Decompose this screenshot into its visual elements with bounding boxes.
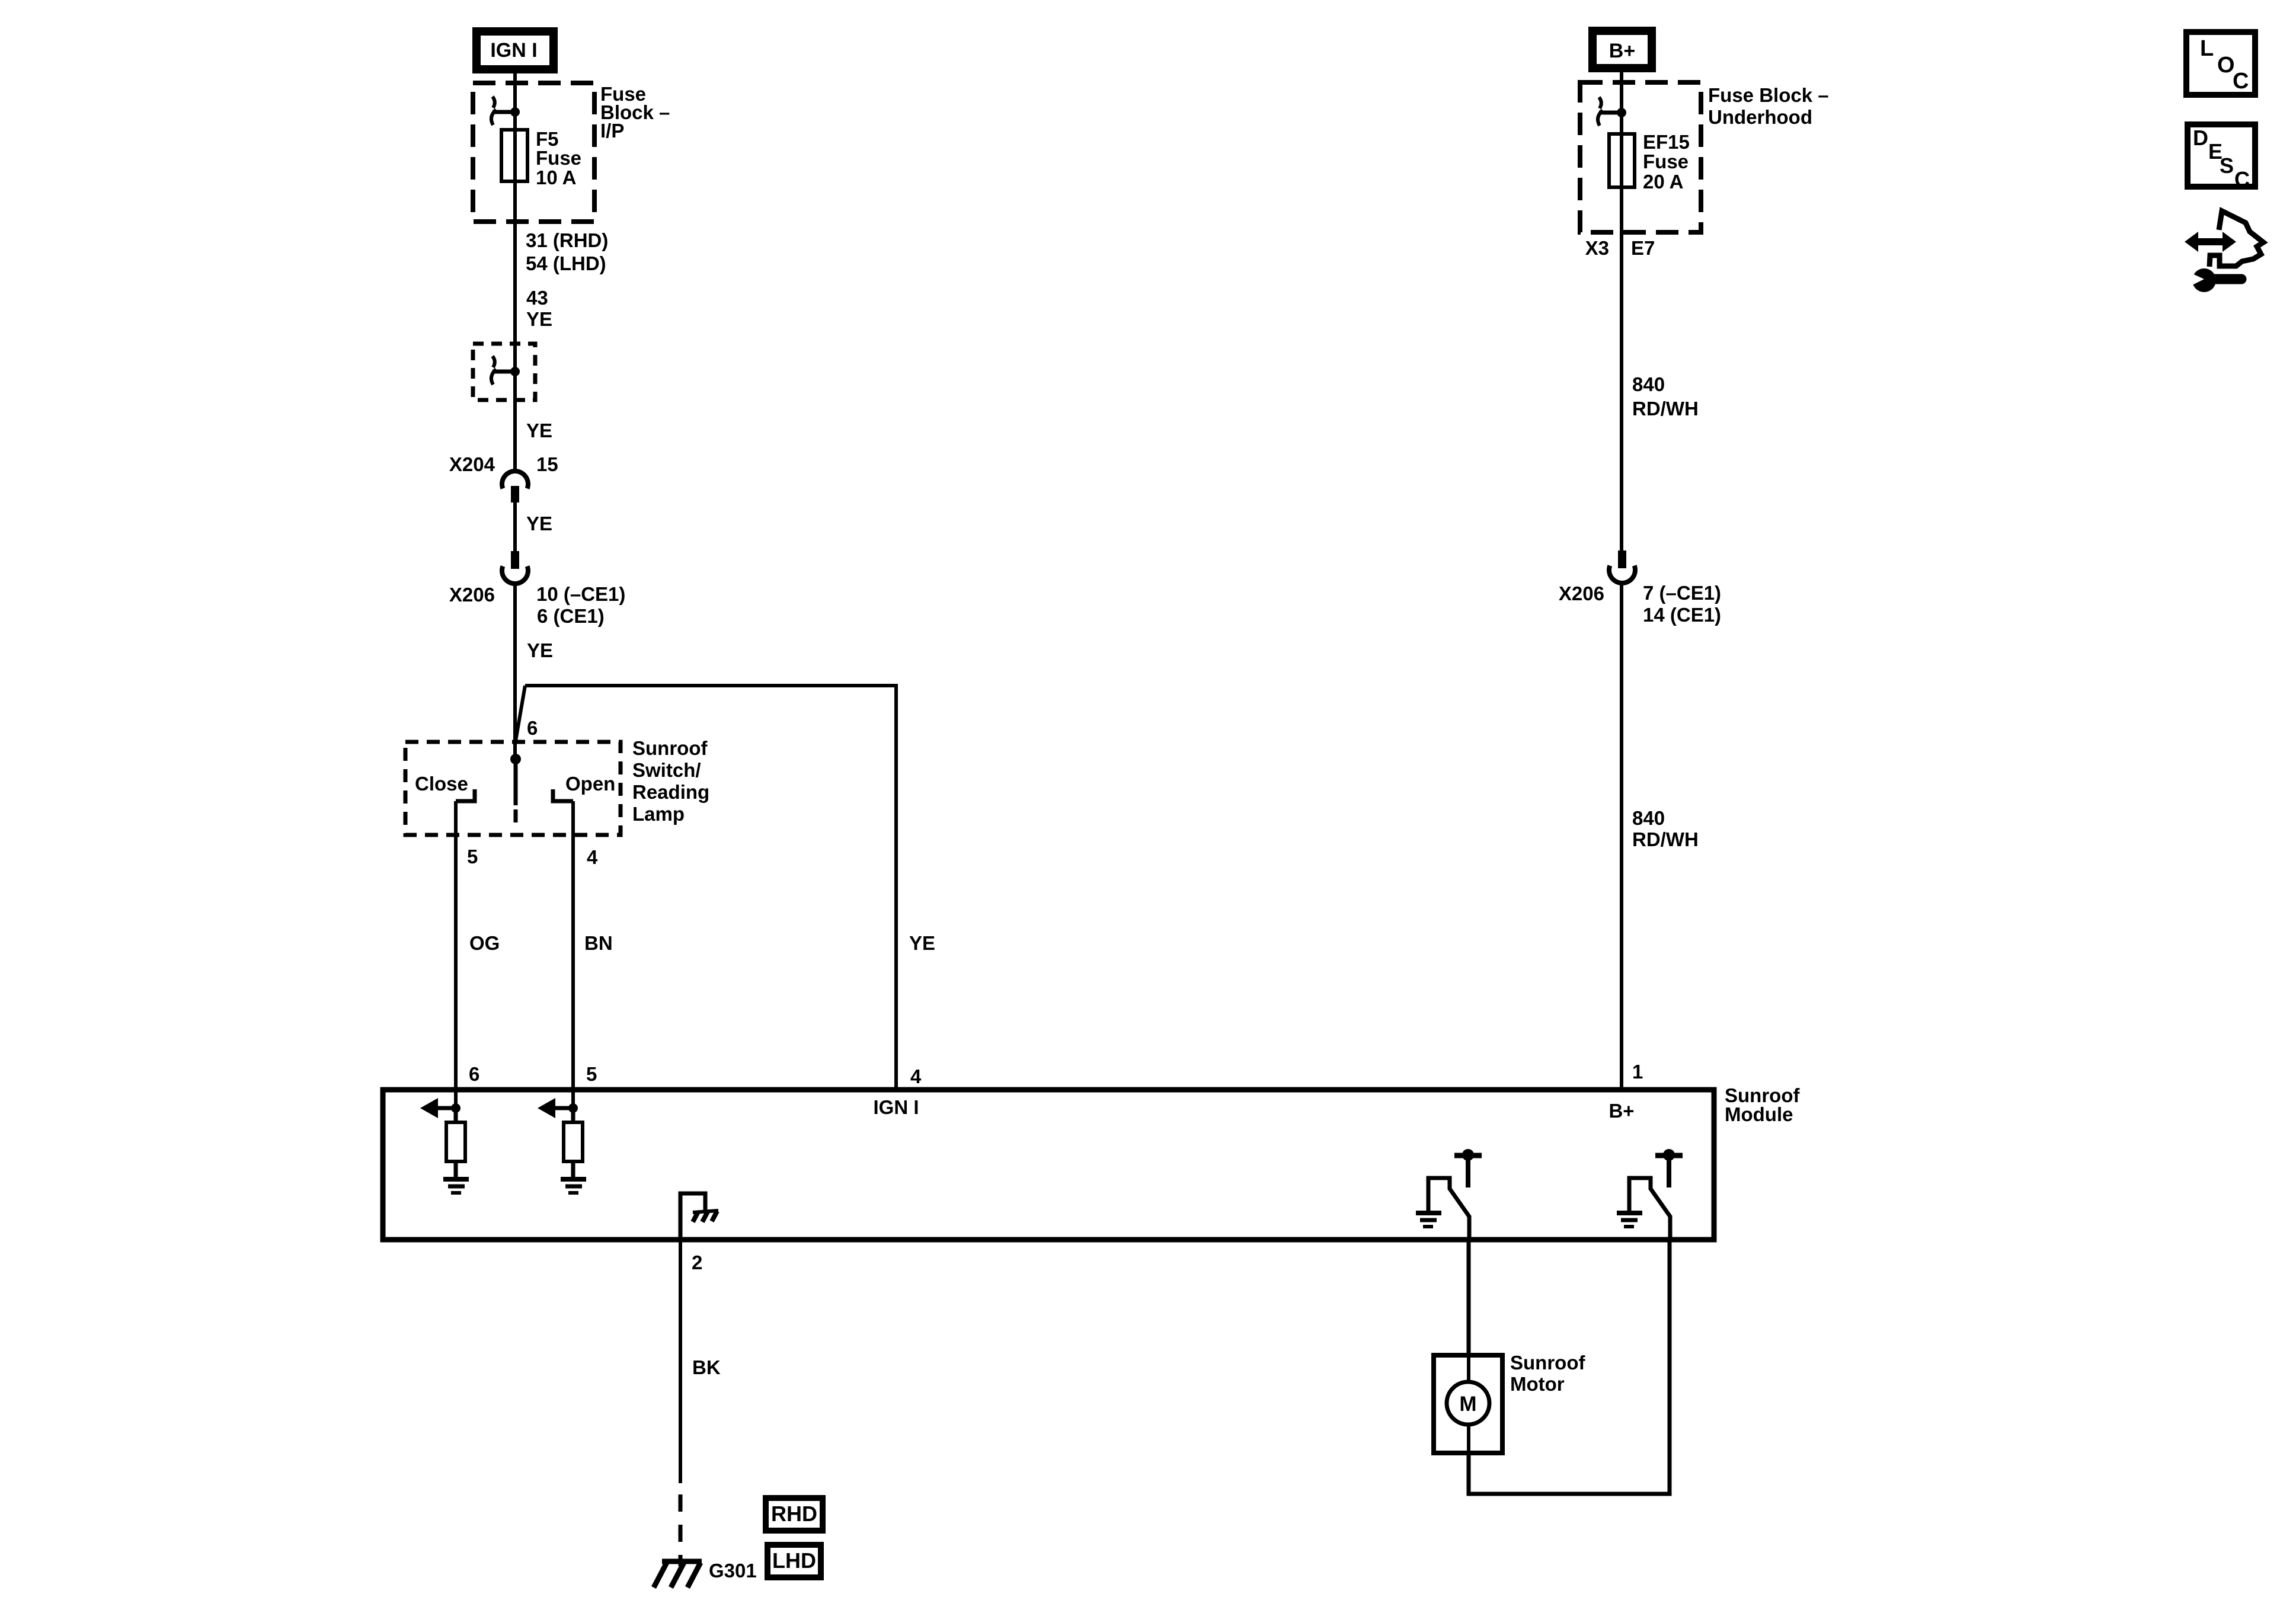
option box RHD [766,1498,823,1531]
svg-text:X206: X206 [449,584,495,606]
svg-text:10 A: 10 A [536,167,576,188]
wire RD/WH 840 (fuse to X206 right) [1620,187,1623,550]
wire OG close to module pin 6 [454,801,458,1108]
svg-text:G301: G301 [709,1560,757,1582]
wire YE horizontal branch to module pin 4 [525,686,896,1090]
wire motor return loop to open contact [1469,1240,1670,1494]
sunroof module box [383,1090,1714,1240]
wire through motor box [1467,1355,1470,1453]
svg-text:5: 5 [586,1063,597,1085]
label Fuse Block - Underhood [1708,84,1829,128]
switch close contact [456,789,475,801]
svg-text:X204: X204 [449,453,495,475]
svg-text:X3: X3 [1585,237,1609,259]
label Sunroof Module [1725,1084,1800,1125]
label 7 (-CE1) 14 (CE1) [1643,582,1721,626]
svg-text:43: 43 [526,287,548,309]
wire BK dashed section [679,1494,683,1566]
svg-text:C: C [2234,167,2250,191]
fuse block I/P dashed box [473,83,594,222]
fuse EF15 20 A [1609,134,1635,187]
svg-text:YE: YE [909,932,935,954]
connector X204 pin 15 (female half) [502,471,528,488]
label 10 (-CE1) 6 (CE1) [536,583,625,627]
svg-text:5: 5 [467,846,478,868]
svg-text:840: 840 [1632,373,1665,395]
svg-text:M: M [1459,1393,1476,1416]
svg-text:Open: Open [565,773,615,795]
wire IGN I feed (x=869, box to fuse block) [513,73,517,130]
svg-text:Sunroof: Sunroof [632,737,708,759]
label EF15 Fuse 20 A [1643,131,1690,193]
junction dot in fuse block I/P [510,107,520,117]
wire branch diagonal to IGN I feed [515,686,525,744]
ground (internal, close contact) [1416,1213,1441,1227]
label Fuse Block - I/P [600,83,670,142]
svg-text:Module: Module [1725,1103,1793,1125]
connector X206 right (female half) [1609,566,1635,583]
svg-text:YE: YE [526,420,552,441]
internal ground hook pin 2 [680,1193,705,1240]
sunroof switch dashed box [405,742,621,835]
wire RD/WH 840 (X206 to module pin 1) [1620,582,1623,1090]
junction dot pin 6 input [451,1103,461,1113]
connector X204 pin 15 (male terminal) [511,486,519,502]
svg-text:BN: BN [584,932,613,954]
svg-text:E7: E7 [1631,237,1655,259]
svg-text:Close: Close [415,773,468,795]
chassis ground G301 [654,1561,702,1587]
svg-text:X206: X206 [1559,582,1604,604]
label Sunroof Motor [1510,1352,1585,1395]
wire BK module pin 2 to G301 [679,1240,682,1483]
legend box LOC [2186,32,2255,95]
svg-text:Switch/: Switch/ [632,759,701,781]
svg-text:YE: YE [526,308,552,330]
off-page arrow pin 5 [538,1098,573,1118]
svg-text:Fuse: Fuse [536,147,581,169]
svg-text:31 (RHD): 31 (RHD) [526,229,608,251]
svg-text:2: 2 [692,1251,702,1273]
svg-text:7 (–CE1): 7 (–CE1) [1643,582,1721,604]
power symbol B+ [1593,31,1652,68]
svg-text:Underhood: Underhood [1708,106,1812,128]
svg-text:Lamp: Lamp [632,803,685,825]
relay contact close side: B+ stub [1454,1149,1482,1188]
svg-text:6: 6 [527,717,538,739]
svg-text:I/P: I/P [600,120,624,142]
svg-text:OG: OG [469,932,500,954]
wire close contact to sunroof motor [1467,1240,1471,1355]
junction dot switch common [510,754,521,764]
wire BN open to module pin 5 [571,801,575,1108]
svg-text:RD/WH: RD/WH [1632,398,1699,420]
service icon: panel outline [2209,211,2263,267]
svg-text:20 A: 20 A [1643,171,1683,193]
wire YE (X204 to X206) [513,502,517,551]
svg-text:RD/WH: RD/WH [1632,828,1699,850]
service icon: wrench [2190,268,2241,292]
svg-text:D: D [2193,126,2208,150]
relay contact close side: grounded contact and blade [1428,1178,1469,1240]
svg-text:C: C [2233,69,2249,94]
svg-text:10 (–CE1): 10 (–CE1) [536,583,625,605]
svg-text:EF15: EF15 [1643,131,1690,153]
connector X206 right (male terminal) [1618,550,1626,568]
svg-text:S: S [2220,153,2234,178]
relay contact open side: B+ stub [1655,1149,1683,1188]
bus hook symbol (inline connector) [491,356,515,385]
connector X206 left (female half) [502,566,528,584]
service icon: double arrow [2185,232,2236,252]
label 840 RD/WH upper [1632,373,1699,420]
label Sunroof Switch/Reading Lamp [632,737,709,825]
ground (internal, open contact) [1617,1213,1642,1227]
junction dot in fuse block underhood [1617,108,1626,117]
switch blade (neutral) [514,759,518,805]
svg-text:B+: B+ [1609,40,1635,62]
junction dot inline connector [510,367,520,376]
svg-text:1: 1 [1632,1061,1643,1083]
motor M circle [1447,1382,1489,1425]
resistor pin 5 pull-down [564,1108,583,1161]
connector X206 left (male terminal) [511,551,519,569]
svg-text:54 (LHD): 54 (LHD) [526,252,606,274]
wire YE 43 (fuse to inline connector) [513,181,517,471]
fuse block bus hook symbol (left) [491,97,515,125]
svg-text:IGN I: IGN I [490,39,537,62]
svg-text:6 (CE1): 6 (CE1) [537,605,605,627]
wire YE (X206 to sunroof switch) [513,583,517,761]
chassis ground (internal, pin 2) [693,1211,718,1222]
svg-text:Reading: Reading [632,781,709,803]
inline connector dashed box [473,344,535,400]
svg-text:6: 6 [469,1063,479,1085]
svg-text:B+: B+ [1609,1100,1634,1122]
relay contact open side: grounded contact and blade [1629,1178,1670,1240]
svg-text:BK: BK [692,1356,721,1378]
svg-text:840: 840 [1632,807,1665,829]
fuse block bus hook symbol (right) [1598,97,1622,126]
power symbol IGN I [477,31,554,69]
ground (internal, pin 6 resistor) [443,1161,469,1193]
svg-text:Sunroof: Sunroof [1510,1352,1585,1374]
svg-text:IGN I: IGN I [873,1096,919,1118]
switch blade dashed travel mark [514,809,518,822]
off-page arrow pin 6 [420,1098,456,1118]
svg-text:4: 4 [910,1065,922,1087]
label 840 RD/WH lower [1632,807,1699,850]
wire B+ feed (box to fuse block underhood) [1620,72,1623,134]
svg-text:RHD: RHD [771,1502,817,1526]
label F5 Fuse 10 A [536,128,581,188]
ground (internal, pin 5 resistor) [561,1161,586,1193]
svg-text:Fuse Block –: Fuse Block – [1708,84,1829,106]
svg-text:L: L [2200,36,2214,61]
junction dot pin 5 input [568,1103,578,1113]
label 43 YE [526,287,552,330]
svg-text:YE: YE [527,639,553,661]
resistor pin 6 pull-down [446,1108,465,1161]
sunroof motor box [1434,1355,1502,1453]
svg-text:15: 15 [536,453,558,475]
label circuit 31 (RHD) 54 (LHD) [526,229,608,274]
fuse F5 10 A [501,130,527,181]
fuse block underhood dashed box [1580,82,1701,232]
svg-text:LHD: LHD [772,1548,816,1573]
svg-text:Fuse: Fuse [1643,151,1689,172]
svg-text:4: 4 [587,846,598,868]
option box LHD [768,1545,821,1577]
switch open contact [553,789,573,801]
svg-text:YE: YE [526,513,552,534]
svg-text:14 (CE1): 14 (CE1) [1643,604,1721,626]
legend box DESC [2188,124,2255,191]
svg-text:Motor: Motor [1510,1373,1565,1395]
